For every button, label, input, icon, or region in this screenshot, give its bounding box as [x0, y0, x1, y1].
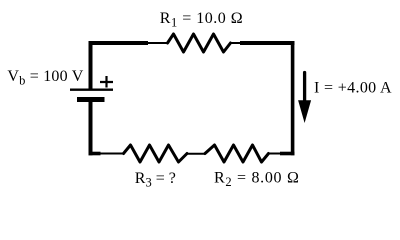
svg-text:R1 = 10.0 Ω: R1 = 10.0 Ω	[160, 10, 243, 30]
svg-text:I = +4.00 A: I = +4.00 A	[314, 80, 392, 97]
svg-text:R3 = ?: R3 = ?	[135, 170, 176, 190]
svg-text:Vb = 100 V: Vb = 100 V	[7, 68, 83, 88]
svg-text:R2 = 8.00 Ω: R2 = 8.00 Ω	[214, 169, 300, 189]
